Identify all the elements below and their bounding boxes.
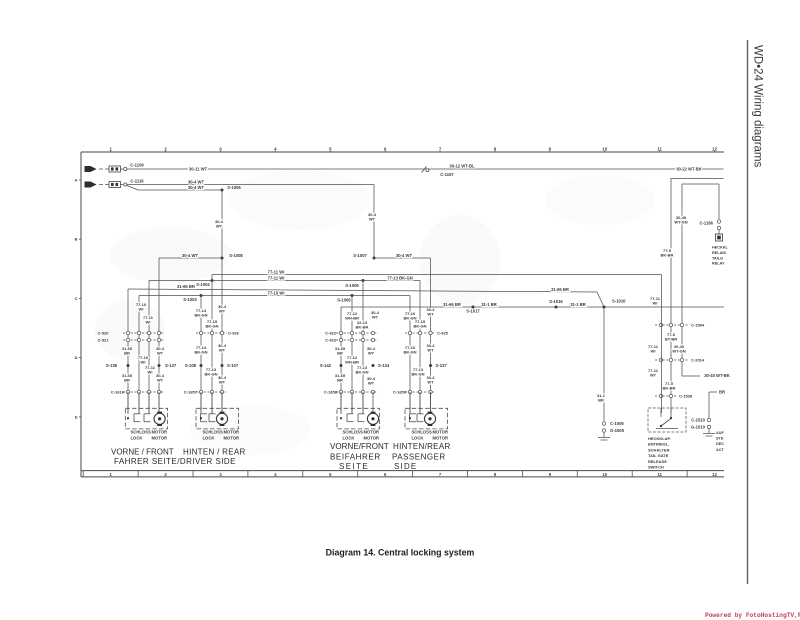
svg-text:C-920: C-920 [98, 331, 110, 336]
svg-text:WI: WI [141, 360, 146, 365]
svg-text:77-13 BK-GN: 77-13 BK-GN [387, 276, 413, 281]
svg-text:BR: BR [337, 378, 343, 383]
svg-text:C-1166: C-1166 [699, 221, 713, 226]
svg-text:WT-GN: WT-GN [672, 349, 685, 354]
svg-text:AUF: AUF [716, 431, 724, 435]
svg-text:BR: BR [124, 378, 130, 383]
svg-text:WT: WT [427, 348, 434, 353]
svg-text:S-1005: S-1005 [227, 185, 241, 190]
svg-text:C-926: C-926 [228, 331, 240, 336]
svg-text:30-4 WT: 30-4 WT [182, 253, 198, 258]
svg-text:C-921: C-921 [98, 338, 110, 343]
svg-text:SCHLOSS: SCHLOSS [131, 430, 151, 435]
svg-text:WT: WT [157, 351, 164, 356]
svg-text:TAIL GATE: TAIL GATE [648, 453, 669, 458]
svg-text:C-1594: C-1594 [691, 323, 705, 328]
svg-text:G-1005: G-1005 [610, 428, 625, 433]
svg-text:LOCK: LOCK [412, 435, 424, 440]
svg-text:MOTOR: MOTOR [152, 430, 168, 435]
svg-text:BK-BR: BK-BR [661, 253, 674, 258]
svg-text:WI: WI [139, 307, 144, 312]
svg-text:WT: WT [427, 380, 434, 385]
svg-text:C-2014: C-2014 [691, 358, 705, 363]
svg-text:31-65 BR: 31-65 BR [177, 284, 195, 289]
svg-text:BR: BR [598, 398, 604, 403]
svg-text:30-4 WT: 30-4 WT [188, 185, 204, 190]
svg-text:S-1065: S-1065 [337, 297, 351, 302]
svg-text:C-1616: C-1616 [111, 390, 125, 395]
svg-text:11: 11 [657, 472, 662, 477]
svg-text:31-1 BR: 31-1 BR [481, 302, 497, 307]
svg-text:A: A [75, 178, 78, 183]
svg-text:SCHLOSS: SCHLOSS [203, 430, 223, 435]
svg-text:D: D [75, 355, 78, 360]
svg-text:30-22 WT-BK: 30-22 WT-BK [676, 166, 702, 171]
svg-text:S-1010: S-1010 [612, 298, 626, 303]
svg-text:S-108: S-108 [185, 363, 197, 368]
svg-text:BT-BR: BT-BR [665, 337, 677, 342]
svg-text:31-65 BR: 31-65 BR [551, 287, 569, 292]
svg-text:S-142: S-142 [320, 363, 332, 368]
svg-text:VORNE / FRONT: VORNE / FRONT [111, 448, 174, 457]
svg-text:LOCK: LOCK [131, 435, 143, 440]
svg-text:SEITE: SEITE [339, 462, 369, 471]
svg-text:HINTEN / REAR: HINTEN / REAR [183, 448, 246, 457]
svg-text:31-65 BR: 31-65 BR [443, 302, 461, 307]
svg-text:C-1658: C-1658 [324, 390, 338, 395]
svg-text:BK-GN: BK-GN [205, 324, 218, 329]
svg-text:WI: WI [653, 301, 658, 306]
svg-text:S-138: S-138 [106, 363, 118, 368]
svg-text:PASSENGER: PASSENGER [392, 453, 446, 462]
svg-text:BK-GN: BK-GN [411, 372, 424, 377]
svg-text:MOTOR: MOTOR [433, 430, 449, 435]
svg-text:C-1510: C-1510 [691, 418, 705, 423]
svg-text:77-11 WI: 77-11 WI [268, 276, 285, 281]
svg-text:S-1017: S-1017 [466, 309, 480, 314]
svg-text:77-10 WI: 77-10 WI [268, 290, 285, 295]
svg-text:30-4 WT: 30-4 WT [188, 180, 204, 185]
svg-text:LOCK: LOCK [203, 435, 215, 440]
svg-text:S-1008: S-1008 [229, 253, 243, 258]
svg-text:S-1007: S-1007 [353, 253, 367, 258]
svg-text:TAILG: TAILG [712, 256, 723, 260]
svg-text:WT: WT [219, 348, 226, 353]
svg-text:S-1003: S-1003 [183, 297, 197, 302]
svg-text:Powered by FotoHostingTV,RU: Powered by FotoHostingTV,RU [705, 612, 800, 619]
svg-text:WD•24 Wiring diagrams: WD•24 Wiring diagrams [752, 45, 764, 167]
svg-text:30-11 WT: 30-11 WT [189, 166, 208, 171]
svg-text:C: C [75, 296, 78, 301]
svg-text:SCHLOSS: SCHLOSS [412, 430, 432, 435]
svg-text:FAHRER SEITE/DRIVER SIDE: FAHRER SEITE/DRIVER SIDE [114, 457, 236, 466]
svg-text:ENTRIEGL.: ENTRIEGL. [648, 442, 669, 447]
svg-text:10: 10 [602, 146, 607, 151]
svg-text:SWITCH: SWITCH [648, 465, 664, 470]
svg-text:RELEASE: RELEASE [648, 459, 667, 464]
svg-text:C-923: C-923 [325, 338, 337, 343]
svg-text:C-1657: C-1657 [184, 390, 198, 395]
svg-text:MOTOR: MOTOR [433, 435, 449, 440]
svg-text:SIDE: SIDE [394, 462, 417, 471]
svg-text:BK-GN: BK-GN [413, 324, 426, 329]
svg-text:SCHALTER: SCHALTER [648, 447, 670, 452]
svg-text:HECKKLAP.: HECKKLAP. [648, 436, 671, 441]
svg-text:SCHLOSS: SCHLOSS [343, 430, 363, 435]
svg-text:30-4 WT: 30-4 WT [396, 253, 412, 258]
svg-text:WT: WT [372, 315, 379, 320]
svg-text:BR: BR [124, 351, 130, 356]
svg-text:C-1659: C-1659 [393, 390, 407, 395]
svg-text:C-1157: C-1157 [440, 172, 454, 177]
svg-text:S-1006: S-1006 [345, 283, 359, 288]
svg-text:S-137: S-137 [165, 363, 177, 368]
svg-text:RELAY: RELAY [712, 262, 725, 266]
svg-text:HINTEN/REAR: HINTEN/REAR [393, 442, 451, 451]
svg-text:WT-GN: WT-GN [674, 220, 687, 225]
svg-text:BK-GN: BK-GN [194, 350, 207, 355]
svg-text:BK-GN: BK-GN [403, 350, 416, 355]
svg-text:BK-GN: BK-GN [355, 370, 368, 375]
svg-text:E: E [75, 414, 78, 419]
svg-text:STE: STE [716, 437, 724, 441]
svg-text:HECKKL: HECKKL [712, 246, 729, 250]
svg-text:C-922: C-922 [325, 331, 337, 336]
svg-text:ACT: ACT [716, 448, 724, 452]
svg-text:WI: WI [651, 349, 656, 354]
svg-text:S-1004: S-1004 [196, 282, 210, 287]
svg-text:MOTOR: MOTOR [364, 435, 380, 440]
svg-text:BK-BR: BK-BR [663, 386, 676, 391]
svg-text:Diagram 14. Central locking sy: Diagram 14. Central locking system [326, 548, 475, 558]
svg-text:10: 10 [602, 472, 607, 477]
svg-text:VORNE/FRONT: VORNE/FRONT [330, 442, 389, 451]
svg-text:11: 11 [657, 146, 662, 151]
svg-text:BR: BR [337, 351, 343, 356]
svg-text:S-1016: S-1016 [549, 299, 563, 304]
svg-text:DEC: DEC [716, 442, 724, 446]
svg-text:12: 12 [712, 472, 717, 477]
svg-text:S-107: S-107 [227, 363, 239, 368]
svg-text:77-11 WI: 77-11 WI [268, 269, 285, 274]
svg-text:G-1010: G-1010 [691, 425, 706, 430]
svg-text:MOTOR: MOTOR [224, 430, 240, 435]
svg-text:S-134: S-134 [378, 363, 390, 368]
svg-text:WT: WT [650, 373, 657, 378]
svg-text:WT: WT [157, 378, 164, 383]
svg-text:MOTOR: MOTOR [152, 435, 168, 440]
svg-text:WT: WT [219, 380, 226, 385]
svg-text:C-1538: C-1538 [679, 394, 693, 399]
svg-text:WI: WI [146, 320, 151, 325]
svg-text:B: B [75, 237, 78, 242]
svg-text:30-12 WT-BL: 30-12 WT-BL [449, 164, 475, 169]
svg-text:C-1109: C-1109 [130, 162, 144, 167]
svg-text:WT: WT [368, 351, 375, 356]
svg-text:WH-BR: WH-BR [345, 360, 359, 365]
svg-text:S-137: S-137 [436, 363, 448, 368]
svg-text:WT: WT [368, 381, 375, 386]
svg-text:BR: BR [719, 390, 725, 395]
svg-text:30-40 WT-BK: 30-40 WT-BK [704, 373, 730, 378]
svg-text:WT: WT [216, 224, 223, 229]
svg-text:BK-GN: BK-GN [194, 313, 207, 318]
svg-text:BEIFAHRER: BEIFAHRER [330, 453, 381, 462]
svg-text:WT: WT [219, 309, 226, 314]
svg-text:C-925: C-925 [437, 331, 449, 336]
svg-text:12: 12 [712, 146, 717, 151]
svg-text:RELAIS: RELAIS [712, 251, 726, 255]
svg-text:C-1116: C-1116 [130, 179, 144, 184]
svg-text:MOTOR: MOTOR [364, 430, 380, 435]
svg-text:BK-GN: BK-GN [204, 372, 217, 377]
svg-text:BK-BR: BK-BR [356, 325, 369, 330]
svg-text:WT: WT [369, 217, 376, 222]
svg-text:WI: WI [148, 370, 153, 375]
svg-text:MOTOR: MOTOR [224, 435, 240, 440]
svg-text:LOCK: LOCK [343, 435, 355, 440]
svg-text:31-1 BR: 31-1 BR [570, 302, 586, 307]
svg-text:WT: WT [427, 312, 434, 317]
svg-text:C-1005: C-1005 [610, 421, 624, 426]
